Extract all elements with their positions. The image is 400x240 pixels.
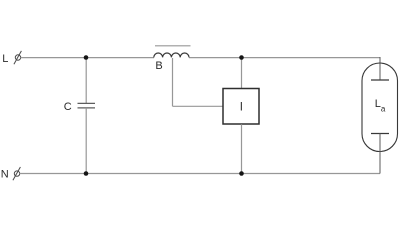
svg-text:L: L — [2, 53, 8, 65]
capacitor C plates — [78, 102, 96, 104]
wire tap to ignitor left — [173, 105, 224, 107]
wire L terminal to inductor B — [21, 57, 154, 59]
terminal L slash — [14, 51, 22, 64]
svg-text:B: B — [155, 60, 162, 72]
svg-text:C: C — [64, 101, 72, 113]
wire lamp bottom lead — [379, 134, 381, 174]
wire N terminal to lamp bottom — [20, 173, 380, 175]
wire capacitor bottom leg — [85, 108, 87, 174]
svg-text:N: N — [1, 169, 9, 181]
inductor B (choke with core line) — [154, 53, 189, 57]
terminal L circle — [15, 55, 20, 60]
wire inductor B to lamp corner — [189, 57, 380, 59]
terminal N slash — [13, 167, 21, 180]
lamp bottom electrode — [371, 133, 389, 135]
wire top node to ignitor — [241, 58, 243, 89]
node bottom of C — [84, 171, 89, 176]
node top at ignitor — [239, 55, 244, 60]
ignitor box I — [223, 89, 259, 125]
wire capacitor top leg — [85, 58, 87, 104]
terminal N circle — [14, 171, 19, 176]
wire inductor tap down — [172, 58, 174, 106]
lamp top electrode — [371, 79, 389, 81]
inductor B core line — [155, 45, 191, 47]
wire ignitor bottom to bottom wire — [241, 124, 243, 173]
lamp La envelope — [362, 63, 398, 152]
wire lamp top lead — [379, 57, 381, 80]
svg-text:I: I — [240, 101, 243, 113]
node top of C — [84, 55, 89, 60]
node bottom at ignitor — [239, 171, 244, 176]
